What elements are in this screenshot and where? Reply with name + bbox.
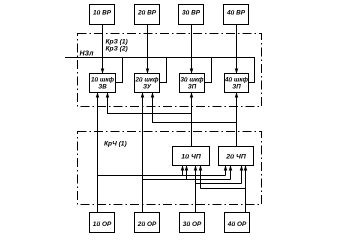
wire шкф3-ЧП1 with arrow bbox=[190, 93, 194, 147]
block 3й ВР bbox=[179, 5, 204, 25]
block 1й ОР bbox=[90, 213, 115, 233]
wire branch to шкф2 right bbox=[160, 58, 167, 83]
wire шкф2 branch H2 with arrow bbox=[151, 93, 237, 123]
svg-text:КрЗ (2): КрЗ (2) bbox=[106, 46, 128, 53]
wire ЧП1 input 2 with arrow bbox=[185, 166, 189, 180]
block 3й ОР bbox=[180, 213, 205, 233]
block 4й ВР bbox=[224, 5, 249, 25]
wire шкф4-ЧП2 with arrow bbox=[235, 93, 239, 147]
wire L1 ОР1 to ЧП inputs bbox=[98, 175, 226, 177]
wire riser ОР2-шкф2 with arrow bbox=[141, 93, 145, 213]
wire L4 ОР4 to ЧП1 bbox=[201, 188, 246, 190]
svg-text:4й ОР: 4й ОР bbox=[227, 220, 247, 228]
svg-text:2й шкф: 2й шкф bbox=[134, 77, 159, 84]
svg-text:2й ЧП: 2й ЧП bbox=[225, 153, 246, 161]
svg-text:1й ВР: 1й ВР bbox=[93, 9, 112, 17]
svg-text:1й шкф: 1й шкф bbox=[91, 77, 115, 84]
svg-text:1й ОР: 1й ОР bbox=[93, 220, 112, 228]
svg-text:КрЧ (1): КрЧ (1) bbox=[104, 141, 127, 148]
wire riser ОР4-ЧП2 with arrow bbox=[244, 166, 248, 213]
wire ВР4 to шкф4 with arrow bbox=[235, 25, 239, 74]
svg-text:4й ВР: 4й ВР bbox=[226, 9, 246, 17]
svg-text:ЗП: ЗП bbox=[232, 84, 241, 91]
wire branch to шкф1 right bbox=[116, 58, 123, 83]
wire ВР3 to шкф3 with arrow bbox=[190, 25, 194, 74]
wire ЧП1 input 1 with arrow bbox=[181, 166, 185, 176]
wire ЧП2 input 3 with arrow bbox=[240, 166, 244, 184]
wire ВР2 to шкф2 with arrow bbox=[146, 25, 150, 74]
svg-text:3й шкф: 3й шкф bbox=[180, 77, 204, 84]
svg-text:КрЗ (1): КрЗ (1) bbox=[106, 39, 128, 46]
wire шкф1 branch H1 with arrow bbox=[106, 93, 192, 114]
wire ЧП2 input 1 with arrow bbox=[224, 166, 228, 176]
block 4й шкф ЗП bbox=[224, 74, 249, 93]
block 4й ОР bbox=[225, 213, 250, 233]
wire ЧП1 input 4 with arrow bbox=[199, 166, 203, 189]
svg-text:ЗУ: ЗУ bbox=[143, 84, 152, 91]
block 2й ОР bbox=[135, 213, 160, 233]
block 2й шкф ЗУ bbox=[134, 74, 159, 93]
wire branch to шкф3 right bbox=[205, 58, 212, 83]
block 1й ВР bbox=[90, 5, 115, 25]
block 1й ЧП bbox=[173, 147, 210, 166]
svg-text:2й ОР: 2й ОР bbox=[137, 220, 157, 228]
svg-text:3й ВР: 3й ВР bbox=[182, 9, 201, 17]
block 2й ЧП bbox=[219, 147, 254, 166]
svg-text:1й ЧП: 1й ЧП bbox=[181, 153, 201, 161]
svg-text:НЗл: НЗл bbox=[80, 51, 95, 58]
svg-text:ЗП: ЗП bbox=[188, 84, 197, 91]
wire riser ОР1-шкф1 with arrow bbox=[96, 93, 100, 213]
wire bus НЗл bbox=[65, 58, 255, 83]
svg-text:4й шкф: 4й шкф bbox=[224, 77, 249, 84]
wire L2 ОР2 to ЧП inputs bbox=[143, 179, 231, 181]
svg-text:3й ОР: 3й ОР bbox=[183, 220, 202, 228]
wire L3 ОР3 to ЧП2 bbox=[196, 183, 242, 185]
svg-text:2й ВР: 2й ВР bbox=[137, 9, 157, 17]
dash-dot frame КрЗ (upper zone) bbox=[78, 34, 262, 107]
block 3й шкф ЗП bbox=[180, 74, 205, 93]
wire riser ОР3-ЧП1 with arrow bbox=[194, 166, 198, 213]
wire ЧП2 input 2 with arrow bbox=[229, 166, 233, 180]
svg-text:ЗВ: ЗВ bbox=[98, 84, 107, 91]
wire ВР1 to шкф1 with arrow bbox=[101, 25, 105, 74]
block 2й ВР bbox=[135, 5, 160, 25]
dash-dot frame КрЧ (lower zone) bbox=[78, 132, 262, 205]
block 1й шкф ЗВ bbox=[90, 74, 116, 93]
